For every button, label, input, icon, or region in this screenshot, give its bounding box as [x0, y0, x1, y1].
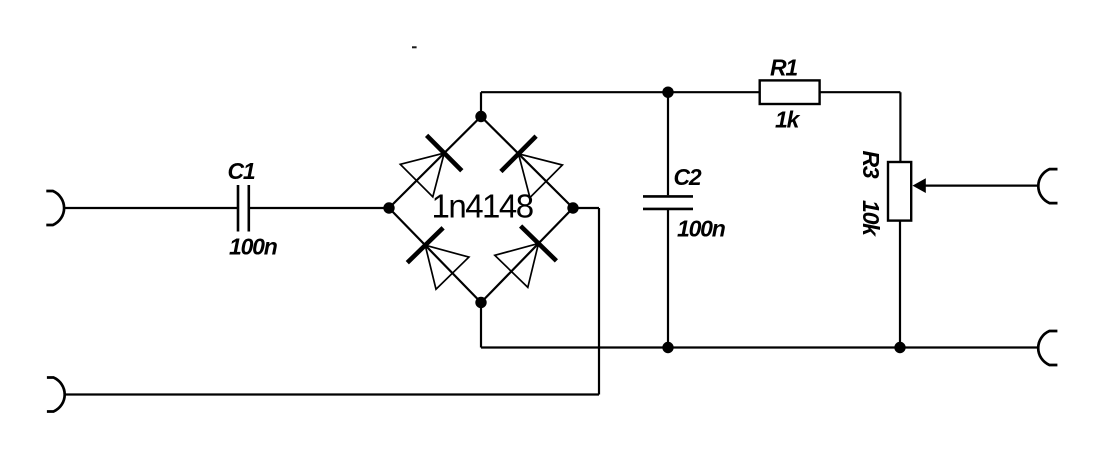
wire bottom rail — [481, 346, 1037, 348]
wire bottom-left input run — [65, 393, 599, 395]
terminal X3 (bottom right) — [1038, 331, 1057, 365]
wire R3 to bottom rail — [899, 221, 901, 348]
wire bridge right node stub — [573, 207, 599, 209]
wire down to R3 — [899, 92, 901, 162]
wire vertical riser to bridge right — [598, 208, 600, 395]
node bridge top — [475, 111, 486, 122]
diode D1 (top-left of bridge 1n4148) — [400, 135, 462, 197]
wire bridge bottom node down — [480, 303, 482, 348]
terminal X4 (bottom left) — [47, 378, 65, 412]
arrowhead of wiper — [913, 178, 926, 193]
node bridge left — [383, 202, 394, 213]
capacitor C2 — [643, 196, 693, 209]
node bridge right — [567, 202, 578, 213]
svg-text:100n: 100n — [229, 234, 278, 260]
wire top rail to R1 — [481, 91, 760, 93]
diode D3 (bottom-left of bridge 1n4148) — [407, 228, 469, 289]
wire C1 to bridge left node — [250, 207, 389, 209]
svg-text:C1: C1 — [228, 158, 255, 184]
potentiometer R3 box — [888, 162, 911, 221]
wire bridge edge left-top — [389, 117, 481, 209]
wire C2 top — [667, 92, 669, 195]
svg-text:R3: R3 — [858, 151, 884, 179]
wire bridge edge right-bottom — [481, 208, 573, 303]
node top rail / C2 — [662, 87, 673, 98]
diode D2 (top-right of bridge 1n4148) — [501, 136, 563, 198]
capacitor C1 — [238, 185, 249, 232]
diode D4 (bottom-right of bridge 1n4148) — [495, 226, 557, 287]
node bridge bottom — [475, 297, 486, 308]
terminal X2 (wiper right) — [1038, 169, 1057, 203]
wire bridge edge top-right — [481, 117, 573, 209]
svg-text:1n4148: 1n4148 — [432, 188, 533, 225]
svg-text:10k: 10k — [858, 200, 884, 237]
terminal X1 (input left) — [46, 191, 64, 225]
wire bridge top node to top rail — [480, 92, 482, 116]
svg-text:R1: R1 — [770, 55, 797, 81]
stray mark — [412, 46, 417, 48]
svg-text:C2: C2 — [674, 164, 702, 190]
wire C2 bottom — [667, 210, 669, 348]
svg-text:1k: 1k — [775, 107, 801, 133]
resistor R1 box — [760, 80, 820, 104]
svg-text:100n: 100n — [677, 216, 726, 242]
wire R1 to right corner — [820, 91, 901, 93]
node bottom rail / R3 — [894, 342, 905, 353]
wire input to C1 — [65, 207, 237, 209]
wire bridge edge bottom-left — [389, 208, 481, 303]
wire wiper arrow line — [924, 185, 1038, 187]
node bottom rail / C2 — [662, 342, 673, 353]
